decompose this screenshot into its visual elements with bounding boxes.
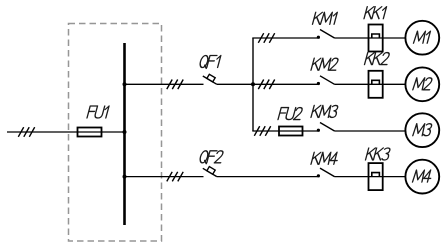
motor M3: [405, 113, 439, 147]
node: riser/QF1 junction: [251, 82, 255, 86]
three-phase slashes (QF1 branch): [167, 80, 183, 90]
label KM2: [311, 58, 339, 70]
label FU2: [278, 108, 303, 120]
node: bus/QF1 junction: [123, 82, 127, 86]
label FU1: [87, 106, 109, 118]
wire (KM3 to M3): [335, 130, 406, 132]
label KK2: [365, 53, 391, 65]
label QF2: [199, 151, 224, 164]
three-phase slashes (feeder 2): [258, 80, 274, 90]
wire (KM4 to M4): [335, 176, 406, 178]
wire (bus to QF1): [125, 83, 204, 85]
wire (KM1 to M1): [335, 37, 406, 39]
three-phase slashes (QF2 branch): [167, 172, 183, 182]
three-phase slashes (input): [18, 127, 34, 137]
circuit breaker QF2: [203, 167, 217, 177]
node: bus/input junction: [123, 130, 127, 134]
thermal relay KK1: [369, 25, 383, 52]
wire (QF2 to KM4): [217, 176, 320, 178]
label KK1: [364, 7, 387, 19]
label KK3: [366, 148, 391, 160]
contactor KM1: [317, 30, 335, 39]
contactor KM3: [317, 123, 335, 132]
thermal relay KK2: [369, 71, 383, 98]
label KM4: [311, 152, 339, 164]
label KM1: [313, 12, 338, 24]
motor M4: [405, 160, 439, 194]
motor M1: [405, 21, 439, 55]
label KM3: [311, 105, 339, 117]
wire (motor feeder 1): [252, 37, 319, 39]
wire (bus to QF2): [125, 176, 204, 178]
contactor KM4: [317, 168, 335, 177]
wire (KM2 to M2): [335, 83, 406, 85]
wire (distribution riser): [252, 38, 254, 131]
wire (motor feeder 2): [253, 83, 320, 85]
three-phase slashes (feeder 1): [258, 33, 274, 43]
wire (motor feeder 3): [252, 130, 319, 132]
fuse FU1: [78, 128, 102, 137]
fuse FU2: [279, 127, 303, 136]
node: bus/QF2 junction: [123, 175, 127, 179]
wire (QF1 to distribution riser): [217, 83, 253, 85]
busbar: [123, 43, 126, 225]
circuit breaker QF1: [203, 74, 217, 84]
wire (supply input): [7, 131, 125, 133]
three-phase slashes (feeder 3): [254, 126, 270, 136]
thermal relay KK3: [369, 163, 383, 190]
motor M2: [405, 67, 439, 101]
label QF1: [199, 56, 221, 69]
dashed enclosure (switchboard outline): [69, 24, 162, 242]
contactor KM2: [317, 76, 335, 85]
